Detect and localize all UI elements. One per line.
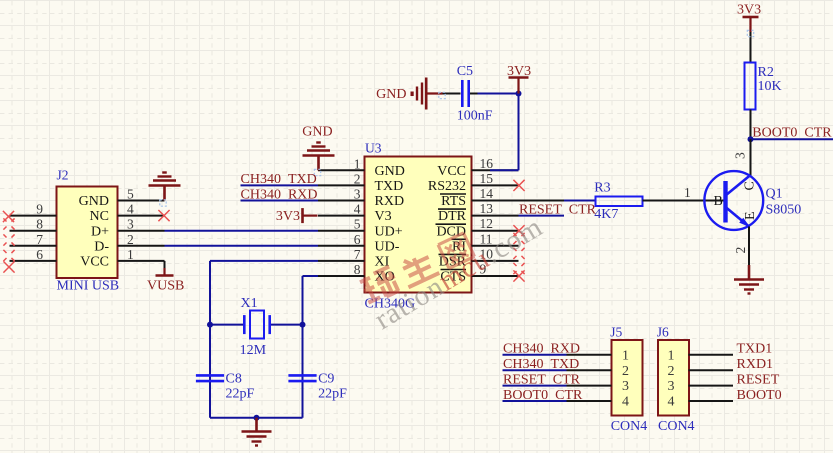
svg-text:D+: D+: [91, 224, 109, 239]
svg-text:2: 2: [733, 247, 748, 254]
svg-text:E: E: [743, 211, 758, 220]
svg-text:5: 5: [354, 217, 361, 232]
svg-text:C9: C9: [318, 372, 334, 387]
svg-text:6: 6: [36, 247, 43, 262]
svg-text:8: 8: [354, 262, 361, 277]
svg-text:R2: R2: [758, 65, 774, 80]
svg-text:DTR: DTR: [438, 209, 467, 224]
svg-text:RXD: RXD: [375, 194, 405, 209]
svg-text:13: 13: [480, 201, 494, 216]
svg-text:16: 16: [480, 156, 494, 171]
svg-text:RTS: RTS: [441, 194, 466, 209]
svg-text:VCC: VCC: [437, 164, 466, 179]
svg-text:U3: U3: [365, 141, 382, 156]
svg-text:GND: GND: [375, 164, 405, 179]
svg-text:3V3: 3V3: [276, 209, 300, 224]
svg-text:BOOT0 CTR: BOOT0 CTR: [503, 388, 583, 403]
svg-text:VUSB: VUSB: [147, 279, 184, 294]
svg-text:CON4: CON4: [611, 419, 648, 434]
svg-text:GND: GND: [376, 87, 406, 102]
svg-text:C: C: [743, 181, 758, 190]
svg-text:15: 15: [480, 171, 494, 186]
svg-text:8: 8: [36, 217, 43, 232]
svg-text:2: 2: [668, 364, 675, 379]
svg-text:MINI USB: MINI USB: [57, 279, 120, 294]
svg-text:4: 4: [622, 395, 629, 410]
svg-text:C8: C8: [226, 372, 242, 387]
svg-text:RS232: RS232: [428, 179, 466, 194]
svg-text:3: 3: [127, 217, 134, 232]
svg-text:D-: D-: [94, 239, 109, 254]
svg-text:GND: GND: [79, 194, 109, 209]
svg-text:C5: C5: [457, 64, 473, 79]
svg-text:J2: J2: [57, 168, 69, 183]
svg-text:VCC: VCC: [80, 255, 109, 270]
svg-text:1: 1: [622, 348, 629, 363]
svg-text:4: 4: [668, 395, 675, 410]
svg-text:2: 2: [622, 364, 629, 379]
svg-text:Q1: Q1: [766, 187, 783, 202]
svg-text:4: 4: [127, 202, 134, 217]
svg-text:3: 3: [733, 152, 748, 159]
svg-text:J6: J6: [657, 325, 669, 340]
svg-text:1: 1: [354, 156, 361, 171]
svg-text:1: 1: [684, 185, 691, 200]
svg-text:12: 12: [480, 216, 494, 231]
svg-text:R3: R3: [594, 181, 610, 196]
svg-text:10K: 10K: [758, 79, 782, 94]
svg-text:2: 2: [127, 232, 134, 247]
svg-text:7: 7: [36, 232, 43, 247]
svg-text:22pF: 22pF: [318, 387, 347, 402]
svg-text:9: 9: [36, 202, 43, 217]
svg-text:3: 3: [354, 187, 361, 202]
svg-text:1: 1: [127, 247, 134, 262]
svg-text:2: 2: [354, 171, 361, 186]
svg-text:22pF: 22pF: [226, 387, 255, 402]
svg-text:4K7: 4K7: [594, 207, 618, 222]
svg-text:6: 6: [354, 232, 361, 247]
svg-text:100nF: 100nF: [457, 109, 493, 124]
svg-text:3: 3: [668, 379, 675, 394]
svg-text:CH340 TXD: CH340 TXD: [241, 172, 317, 187]
svg-text:NC: NC: [90, 209, 109, 224]
svg-text:V3: V3: [375, 209, 392, 224]
svg-text:3V3: 3V3: [507, 64, 531, 79]
svg-text:12M: 12M: [240, 343, 267, 358]
svg-text:TXD1: TXD1: [737, 342, 773, 357]
svg-text:BOOT0: BOOT0: [737, 388, 782, 403]
svg-text:B: B: [714, 194, 723, 209]
svg-text:3: 3: [622, 379, 629, 394]
svg-text:CON4: CON4: [658, 419, 695, 434]
svg-text:RXD1: RXD1: [737, 357, 774, 372]
svg-text:J5: J5: [610, 325, 622, 340]
svg-text:TXD: TXD: [375, 179, 404, 194]
svg-text:RESET CTR: RESET CTR: [503, 372, 581, 387]
svg-text:5: 5: [127, 187, 134, 202]
svg-text:CH340 RXD: CH340 RXD: [503, 342, 580, 357]
svg-text:UD+: UD+: [375, 224, 403, 239]
svg-text:1: 1: [668, 348, 675, 363]
svg-text:X1: X1: [241, 296, 258, 311]
svg-text:UD-: UD-: [375, 239, 400, 254]
svg-text:7: 7: [354, 247, 361, 262]
svg-text:BOOT0 CTR: BOOT0 CTR: [752, 126, 832, 141]
svg-text:3V3: 3V3: [737, 3, 761, 18]
svg-text:4: 4: [354, 202, 361, 217]
svg-text:14: 14: [480, 186, 494, 201]
svg-text:S8050: S8050: [766, 203, 802, 218]
svg-text:RESET: RESET: [737, 372, 780, 387]
svg-text:CH340 RXD: CH340 RXD: [241, 187, 318, 202]
svg-text:CH340 TXD: CH340 TXD: [503, 357, 579, 372]
svg-text:GND: GND: [302, 125, 332, 140]
